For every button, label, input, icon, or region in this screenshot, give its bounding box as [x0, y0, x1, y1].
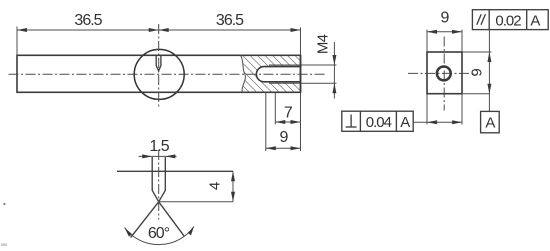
arc arrow left	[125, 228, 133, 237]
dimension 9 (right, vertical) + leader line	[488, 30, 490, 112]
svg-text:9: 9	[469, 69, 486, 77]
bar right edge (section face)	[300, 55, 302, 92]
dimension M4	[333, 42, 335, 99]
surface line	[117, 170, 233, 172]
60 deg cone line left	[131, 202, 159, 238]
svg-text:1.5: 1.5	[149, 138, 169, 155]
vertical centerline	[443, 37, 445, 111]
svg-text:A: A	[530, 12, 540, 29]
section hatching	[238, 55, 301, 92]
dimension 36.5 (left)	[16, 27, 18, 56]
svg-text:0.02: 0.02	[495, 12, 521, 29]
tapped hole circle	[437, 67, 451, 81]
horizontal centerline of bar	[9, 73, 328, 75]
vertical centerline through circle	[158, 24, 160, 108]
60 deg cone line right	[159, 202, 185, 236]
svg-text:60°: 60°	[148, 225, 170, 242]
centre punch notch	[156, 55, 161, 71]
perpendicularity leader	[413, 121, 462, 123]
tip reference line	[159, 201, 233, 203]
svg-text:A: A	[485, 115, 495, 132]
angle arc	[125, 226, 195, 244]
drill end cap	[256, 67, 264, 82]
parallel symbol	[477, 14, 481, 25]
dimension 36.5 (right)	[159, 29, 301, 31]
extension lines below square	[426, 94, 428, 125]
extension lines right	[462, 51, 492, 53]
dimension 9 (top)	[426, 30, 428, 52]
svg-text:7: 7	[284, 105, 293, 122]
dimension 1.5	[139, 155, 177, 157]
arc arrow right	[188, 226, 194, 235]
dimension 7 (thread depth)	[274, 92, 276, 124]
scan artifact smudge	[1, 244, 7, 247]
tapped hole: drilled hole outline (thick)	[264, 66, 301, 68]
detail centerline	[158, 150, 160, 220]
perpendicular symbol	[346, 126, 357, 128]
break line (wavy)	[241, 55, 246, 92]
feature control frame: perpendicularity	[342, 111, 413, 131]
feature control frame: parallelism	[472, 10, 548, 30]
square outline	[427, 52, 462, 94]
bar outline	[17, 55, 301, 92]
svg-text:4: 4	[206, 182, 223, 190]
punch slot outline	[152, 157, 165, 202]
svg-text:36.5: 36.5	[74, 12, 102, 29]
svg-text:0.04: 0.04	[366, 114, 392, 131]
tapped hole: thread crest lines (thin)	[269, 64, 337, 66]
circle (detail reference circle)	[134, 49, 184, 99]
svg-text:9: 9	[280, 129, 289, 146]
svg-text:M4: M4	[315, 34, 332, 54]
svg-text:9: 9	[441, 10, 450, 27]
dimension 9 (drill depth)	[265, 92, 267, 151]
svg-text:A: A	[400, 114, 410, 131]
scan artifact dot	[3, 203, 5, 205]
horizontal centerline	[408, 72, 474, 74]
dimension 4	[232, 171, 234, 202]
svg-text:36.5: 36.5	[216, 12, 244, 29]
datum A box	[481, 111, 500, 132]
